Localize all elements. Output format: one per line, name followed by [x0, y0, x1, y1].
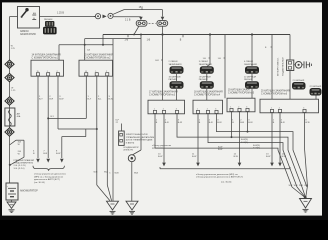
- svg-text:(см. 30-16): (см. 30-16): [34, 182, 45, 184]
- fuse label 15A: [139, 6, 144, 9]
- stub K4b to coil box 6: [315, 96, 317, 100]
- connector K1b: [170, 81, 184, 89]
- wire to fuse AM (upper run): [113, 8, 162, 14]
- svg-text:B-R: B-R: [165, 122, 169, 124]
- svg-text:B-R: B-R: [43, 153, 47, 155]
- labels: [244, 76, 256, 82]
- svg-text:2-B: 2-B: [125, 39, 129, 41]
- ground T2: [126, 201, 138, 214]
- signal wire labels: [158, 154, 287, 159]
- svg-text:И АКПП): И АКПП): [126, 141, 135, 144]
- signal wire to ECU a1: [162, 114, 166, 167]
- link line H3: [85, 38, 141, 40]
- connector IG2: [5, 73, 14, 81]
- svg-text:B-W(3): B-W(3): [241, 142, 248, 144]
- label coil box 1: [32, 53, 61, 59]
- svg-text:2: 2: [207, 109, 208, 111]
- bus tick labels: [125, 35, 183, 42]
- connector J2 (round): [108, 13, 113, 18]
- svg-text:15A: 15A: [139, 6, 144, 9]
- ignition coil w/ igniter No.4: [193, 100, 223, 114]
- fuse F1 (IGN 7.5A): [136, 20, 147, 26]
- fuse box dashed tie: [149, 22, 156, 24]
- routed wire n3: [208, 114, 297, 187]
- wire to fuse IG (lower run): [113, 16, 141, 19]
- label connector block: [44, 18, 53, 21]
- svg-text:AM: AM: [33, 12, 36, 15]
- svg-text:3: 3: [303, 108, 304, 110]
- svg-text:ЗАЖИГАНИЯ: ЗАЖИГАНИЯ: [169, 63, 182, 66]
- arrow wire labels: [33, 151, 61, 156]
- connector K1a: [170, 66, 184, 74]
- label ignition switch: [20, 30, 36, 36]
- tie line H1 (coil1 pin2 / coil2 pin1): [47, 116, 86, 119]
- funnel wire labels: [289, 185, 309, 187]
- bracket line: [160, 167, 290, 169]
- note main fusible link: [14, 159, 35, 170]
- connector K2b: [200, 81, 214, 89]
- svg-text:С КОММУТАТОРОМ №3: С КОММУТАТОРОМ №3: [149, 93, 176, 96]
- svg-text:B-R: B-R: [209, 122, 213, 124]
- fusible link label: [17, 112, 21, 118]
- svg-text:к Блоку управления двигателем: к Блоку управления двигателем и АКПП (ЕС…: [196, 176, 243, 179]
- svg-text:С КОММУТАТОРОМ №4: С КОММУТАТОРОМ №4: [194, 93, 221, 96]
- svg-text:B-W(3): B-W(3): [253, 148, 260, 150]
- wire fuse F1 to bus: [134, 26, 139, 34]
- connector K3a: [245, 66, 259, 74]
- wire label W-B: [11, 46, 16, 51]
- wire feed coil 1: [58, 45, 60, 61]
- svg-text:1: 1: [154, 109, 155, 111]
- ignition coil w/ igniter No.1: [31, 60, 64, 76]
- svg-text:2: 2: [106, 71, 107, 73]
- ignition coil w/ igniter No.5: [227, 98, 255, 112]
- svg-text:ПРЕДОХРАНИТЕЛЬ: ПРЕДОХРАНИТЕЛЬ: [14, 162, 34, 165]
- wire K1: [176, 74, 178, 81]
- routed wire n2: [177, 114, 302, 187]
- routed wire n1: [217, 114, 308, 187]
- connector K4a: [292, 82, 306, 90]
- curly bracket: [33, 166, 64, 171]
- fusible link AM: [5, 108, 15, 126]
- svg-text:РАЗЪЕМ: РАЗЪЕМ: [199, 78, 208, 81]
- svg-text:15 КАТУШКА ЗАЖИГАНИЯ: 15 КАТУШКА ЗАЖИГАНИЯ: [84, 53, 113, 56]
- svg-text:С КОММУТАТОРОМ №6: С КОММУТАТОРОМ №6: [261, 92, 288, 95]
- svg-text:3.0L (Ф 2.0): 3.0L (Ф 2.0): [14, 167, 25, 170]
- svg-text:20 ЧЕРНЫЙ: 20 ЧЕРНЫЙ: [244, 76, 256, 79]
- fuse F2 (15A): [157, 20, 168, 26]
- svg-text:1: 1: [197, 109, 198, 111]
- svg-text:B-Y: B-Y: [39, 99, 43, 101]
- svg-text:21 ЧЕРНЫЙ: 21 ЧЕРНЫЙ: [293, 79, 305, 82]
- pin wire labels: [39, 96, 114, 101]
- ECU connector: [119, 131, 125, 145]
- wire K2: [206, 74, 208, 81]
- spark plug / coil connectors K1: [169, 61, 182, 66]
- coil feed line H2: [59, 44, 113, 46]
- connector K2a: [200, 66, 214, 74]
- wire bus to ground T1: [112, 39, 114, 202]
- svg-text:(MFI) см. к Блоку управления: (MFI) см. к Блоку управления: [34, 176, 64, 178]
- wire coil2 pin2 down: [96, 76, 98, 185]
- bus junction dots: [133, 33, 253, 35]
- svg-text:W-B: W-B: [104, 172, 109, 174]
- svg-text:2: 2: [163, 109, 164, 111]
- svg-text:2.0L (Ф 1.25): 2.0L (Ф 1.25): [14, 164, 26, 167]
- ground (battery): [7, 202, 16, 213]
- battery: [6, 183, 18, 200]
- loop wire labels: [18, 142, 22, 156]
- wire coil1 pin2 down: [47, 76, 49, 158]
- left feed wire: [9, 60, 11, 183]
- wire feed coil 2: [84, 39, 86, 61]
- wire connector to coil box 4: [206, 89, 208, 100]
- label ignition coil w/ igniter No.3: [149, 91, 178, 97]
- wire connector to coil box 5: [251, 89, 253, 98]
- svg-text:19 ЧЕРНЫЙ: 19 ЧЕРНЫЙ: [199, 76, 211, 79]
- svg-text:(ФИЛЬТР): (ФИЛЬТР): [124, 149, 134, 152]
- signal wire to ECU a3: [238, 112, 242, 167]
- wire coil5 pin3 to n1: [247, 112, 249, 133]
- wire tick label: [265, 47, 272, 49]
- svg-text:22 ЧЕРНЫЙ: 22 ЧЕРНЫЙ: [310, 85, 322, 88]
- wire down to fuse F2: [162, 10, 164, 17]
- wire coil2 pin1 down: [85, 76, 87, 118]
- wire code ticks: [109, 173, 138, 175]
- svg-text:40A: 40A: [17, 115, 21, 118]
- svg-text:к Блоку управления двигателем: к Блоку управления двигателем (MFI) см.: [196, 174, 238, 176]
- label ignition coil w/ igniter No.6: [261, 90, 290, 96]
- svg-text:15: 15: [85, 71, 87, 73]
- svg-text:3: 3: [246, 107, 247, 109]
- ECU text: [126, 133, 155, 144]
- svg-text:B-Y: B-Y: [51, 116, 55, 118]
- svg-text:W-B: W-B: [134, 173, 139, 175]
- svg-text:ЗАЖИГАНИЯ: ЗАЖИГАНИЯ: [20, 33, 36, 36]
- noise filter condenser: [294, 61, 312, 68]
- svg-text:1-B: 1-B: [147, 39, 151, 41]
- svg-text:3: 3: [176, 109, 177, 111]
- svg-text:B-R: B-R: [49, 99, 53, 101]
- ignition coil w/ igniter No.6: [260, 99, 319, 113]
- labels: [199, 76, 211, 82]
- svg-text:18 КАТУШКА ЗАЖИГАНИЯ: 18 КАТУШКА ЗАЖИГАНИЯ: [194, 91, 223, 94]
- spark plug / coil connectors K3: [244, 61, 257, 66]
- svg-text:B-R: B-R: [240, 122, 244, 124]
- signal arrows to ECU (left group): [36, 159, 63, 163]
- svg-text:двигателем: двигателем: [152, 147, 164, 149]
- wire node label: [87, 49, 91, 51]
- connector IG3: [5, 97, 14, 105]
- mid-route labels: [218, 139, 260, 151]
- svg-text:(БЛОК УПРАВЛЕНИЯ ДВИГ.: (БЛОК УПРАВЛЕНИЯ ДВИГ.: [126, 139, 154, 142]
- wires to ground T1 from coils: [94, 172, 112, 201]
- label ignition coil w/ igniter No.5: [228, 89, 255, 95]
- connector IG4: [5, 128, 14, 136]
- alternate wiring loop: [9, 140, 24, 166]
- svg-text:1: 1: [230, 107, 231, 109]
- vertical labels (noise filter circuit): [276, 57, 284, 76]
- ignition coil w/ igniter No.2: [79, 60, 113, 76]
- svg-text:15: 15: [37, 71, 39, 73]
- wire bus to coil box 4: [207, 35, 210, 67]
- wire filter to coil box 6: [289, 71, 291, 100]
- connector arrow: [103, 15, 107, 19]
- label ignition coil w/ igniter No.4: [194, 91, 223, 97]
- current arrow into fuse F1: [139, 17, 143, 21]
- svg-text:двигателем и АКПП (ЕСТ): двигателем и АКПП (ЕСТ): [34, 178, 60, 181]
- ground T1: [107, 201, 119, 214]
- ignition coil w/ igniter No.3: [148, 100, 185, 114]
- svg-text:W-B: W-B: [305, 122, 310, 124]
- wire capacitor to ground T2: [131, 162, 133, 202]
- wire coil6 pin3 to ground: [305, 113, 308, 187]
- wire label 7.5A: [125, 20, 131, 22]
- noise filter capacitor label: [124, 146, 140, 152]
- svg-text:W-B: W-B: [94, 172, 99, 174]
- signal wire to ECU a2: [196, 114, 200, 167]
- svg-text:1: 1: [47, 71, 48, 73]
- current arrow into fuse F2: [161, 17, 165, 21]
- svg-text:к Блоку управления двигателем: к Блоку управления двигателем: [34, 174, 66, 176]
- svg-text:ФИЛЬТР ПОМЕХО-: ФИЛЬТР ПОМЕХО-: [276, 57, 279, 76]
- labels: [169, 76, 181, 82]
- svg-text:3: 3: [215, 109, 216, 111]
- svg-text:ПОДАВИТЕЛЬНЫЙ: ПОДАВИТЕЛЬНЫЙ: [281, 57, 284, 76]
- svg-text:W-B: W-B: [115, 173, 120, 175]
- wire coil1 pin1 down: [37, 76, 39, 158]
- svg-text:18 ЧЕРНЫЙ: 18 ЧЕРНЫЙ: [169, 76, 181, 79]
- ECU connector stub: [120, 124, 122, 132]
- pin wire labels below boxes: [156, 119, 310, 124]
- label coil box 2: [84, 53, 113, 59]
- svg-text:B-Y: B-Y: [88, 99, 92, 101]
- svg-text:2.1 B: 2.1 B: [125, 20, 131, 22]
- wire bus to coil box 6 (left feed): [271, 35, 273, 100]
- note text (right): [196, 174, 243, 184]
- svg-text:РАЗЪЕМ: РАЗЪЕМ: [244, 78, 253, 81]
- wires funnel to common ground: [292, 187, 307, 197]
- svg-text:2: 2: [57, 71, 58, 73]
- ECU connector label: [116, 120, 120, 125]
- svg-text:ЗАЖИГАНИЯ: ЗАЖИГАНИЯ: [244, 63, 257, 66]
- connector K3b: [245, 81, 259, 89]
- routed wire n4: [155, 114, 292, 187]
- svg-text:С КОММУТАТОРОМ №1: С КОММУТАТОРОМ №1: [32, 56, 59, 59]
- jog wire to arrow 3: [62, 129, 86, 158]
- wire fuse F2 to coil box 3: [162, 26, 164, 100]
- svg-text:РАЗЪЕМ: РАЗЪЕМ: [169, 78, 178, 81]
- signal wire to ECU a5: [278, 113, 282, 167]
- wire connector to coil box 3: [176, 89, 178, 100]
- note text block (left): [34, 174, 66, 184]
- wire gauge label 1.25B: [57, 12, 64, 15]
- ground (right, common): [300, 199, 312, 213]
- svg-text:(см. 30-16): (см. 30-16): [221, 182, 232, 184]
- svg-text:19 КАТУШКА ЗАЖИГ.: 19 КАТУШКА ЗАЖИГ.: [228, 89, 251, 92]
- ignition switch SW1: [18, 7, 40, 29]
- wire K3: [251, 74, 253, 81]
- connector J1 (round): [94, 14, 101, 19]
- svg-text:2: 2: [238, 107, 239, 109]
- svg-text:АККУМУЛЯТОР: АККУМУЛЯТОР: [20, 190, 38, 193]
- wire bus to coil box 5 (left feed): [224, 35, 226, 99]
- tie line H2b (coil1 pin3 / coil2 pin2): [58, 128, 98, 130]
- connector block (key cylinder connector): [43, 21, 57, 34]
- svg-text:B-R: B-R: [281, 122, 285, 124]
- svg-text:ГЛАВНЫЙ ПЛАВКИЙ: ГЛАВНЫЙ ПЛАВКИЙ: [14, 159, 35, 162]
- svg-text:ЗАЖИГАНИЯ: ЗАЖИГАНИЯ: [199, 63, 212, 66]
- wire tick label: [203, 58, 210, 60]
- svg-text:С КОММУТАТОРОМ №2: С КОММУТАТОРОМ №2: [84, 56, 111, 59]
- wire bus corner to noise filter: [289, 35, 291, 61]
- wire from SW1 AM terminal to left column: [10, 17, 18, 61]
- svg-text:1.25 B: 1.25 B: [57, 12, 64, 15]
- svg-text:17 КАТУШКА ЗАЖИГАНИЯ: 17 КАТУШКА ЗАЖИГАНИЯ: [149, 91, 178, 94]
- main bus B+: [103, 34, 290, 36]
- connector IG1: [5, 60, 14, 68]
- wire bus drop x141: [132, 35, 141, 156]
- svg-text:С КОММУТАТОРОМ №5: С КОММУТАТОРОМ №5: [228, 91, 255, 94]
- spark plug / coil connectors K2: [199, 61, 212, 66]
- svg-text:РАЗЪЕМ: РАЗЪЕМ: [44, 18, 53, 21]
- svg-text:1: 1: [95, 71, 96, 73]
- wire tick label: [155, 60, 162, 62]
- bus drop to coil feed line: [102, 35, 104, 45]
- svg-text:B-R: B-R: [155, 60, 159, 62]
- noise filter capacitor: [128, 155, 135, 162]
- svg-text:ЭЛЕКТРОННЫЙ БЛОК: ЭЛЕКТРОННЫЙ БЛОК: [126, 133, 149, 136]
- svg-text:20 КАТУШКА ЗАЖИГАНИЯ: 20 КАТУШКА ЗАЖИГАНИЯ: [261, 90, 290, 93]
- wire bus through connectors K3: [251, 35, 253, 67]
- note text (routing): [152, 145, 171, 150]
- svg-text:УПРАВЛЕНИЯ ДВИГАТЕЛЕМ: УПРАВЛЕНИЯ ДВИГАТЕЛЕМ: [126, 136, 155, 139]
- wire label: [11, 88, 16, 93]
- svg-text:2: 2: [279, 108, 280, 110]
- signal wire to ECU a4: [270, 113, 274, 167]
- wire coil5 pin1 to n2: [231, 112, 233, 138]
- wire tick label: [218, 58, 225, 60]
- wire battery to ground: [11, 200, 13, 202]
- svg-text:1: 1: [271, 108, 272, 110]
- wire SW1 IG to connectors: [40, 16, 96, 18]
- connector K4b: [310, 88, 322, 96]
- noise filter resistor: [287, 60, 294, 71]
- wire coil1 pin3 down: [57, 76, 59, 129]
- ground junction: [304, 196, 307, 199]
- svg-text:AM: AM: [17, 112, 20, 115]
- wire coil2 pin3 down: [106, 76, 108, 185]
- svg-text:14 КАТУШКА ЗАЖИГАНИЯ: 14 КАТУШКА ЗАЖИГАНИЯ: [32, 53, 61, 56]
